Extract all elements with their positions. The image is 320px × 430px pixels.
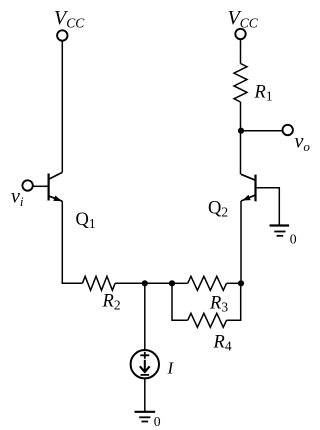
- label R3: [209, 293, 228, 314]
- node junction B: [169, 280, 175, 286]
- label vo: [295, 131, 311, 155]
- ground (right): [270, 226, 290, 236]
- transistor Q1: [49, 172, 63, 201]
- label vi: [11, 186, 24, 210]
- svg-text:vo: vo: [295, 131, 311, 155]
- label Q1: [76, 210, 96, 231]
- svg-text:VCC: VCC: [54, 7, 85, 31]
- svg-text:R3: R3: [209, 293, 228, 314]
- svg-text:I: I: [167, 359, 175, 378]
- svg-text:R2: R2: [102, 292, 121, 313]
- wire: [172, 282, 188, 284]
- wire: [62, 201, 82, 283]
- node output junction: [238, 128, 244, 134]
- resistor R2: [82, 276, 115, 290]
- terminal VCC right: [235, 29, 245, 39]
- wire: [240, 102, 242, 174]
- terminal vi: [22, 180, 32, 190]
- wire: [227, 282, 242, 284]
- svg-text:R4: R4: [213, 333, 232, 354]
- wire: [33, 185, 48, 187]
- supply label VCC (left): [54, 7, 85, 31]
- label 0 (bottom ground): [154, 414, 161, 429]
- wire: [256, 188, 280, 226]
- node junction A: [142, 280, 148, 286]
- svg-text:Q1: Q1: [76, 210, 96, 231]
- terminal VCC left: [57, 30, 67, 40]
- svg-text:VCC: VCC: [228, 7, 259, 31]
- svg-text:R1: R1: [254, 83, 273, 104]
- label R1: [254, 83, 273, 104]
- resistor R1: [234, 64, 247, 103]
- resistor R3: [188, 276, 227, 290]
- label I: [167, 359, 175, 378]
- node junction C: [238, 280, 244, 286]
- svg-text:Q2: Q2: [208, 199, 228, 220]
- wire: [172, 283, 188, 320]
- wire: [241, 130, 283, 132]
- label R2: [102, 292, 121, 313]
- ground (bottom): [135, 412, 156, 422]
- label 0 (right ground): [290, 231, 297, 246]
- label R4: [213, 333, 232, 354]
- terminal vo: [283, 125, 293, 135]
- wire: [227, 283, 241, 320]
- wire: [144, 378, 146, 411]
- svg-text:0: 0: [154, 414, 161, 429]
- wire: [144, 283, 146, 350]
- transistor Q2: [241, 174, 256, 201]
- wire: [115, 282, 172, 284]
- svg-text:vi: vi: [11, 186, 24, 210]
- supply label VCC (right): [228, 7, 259, 31]
- wire: [240, 201, 242, 283]
- resistor R4: [188, 313, 227, 327]
- svg-text:0: 0: [290, 231, 297, 246]
- current source I: [131, 350, 159, 378]
- wire: [240, 39, 242, 63]
- wire: [61, 41, 63, 173]
- label Q2: [208, 199, 228, 220]
